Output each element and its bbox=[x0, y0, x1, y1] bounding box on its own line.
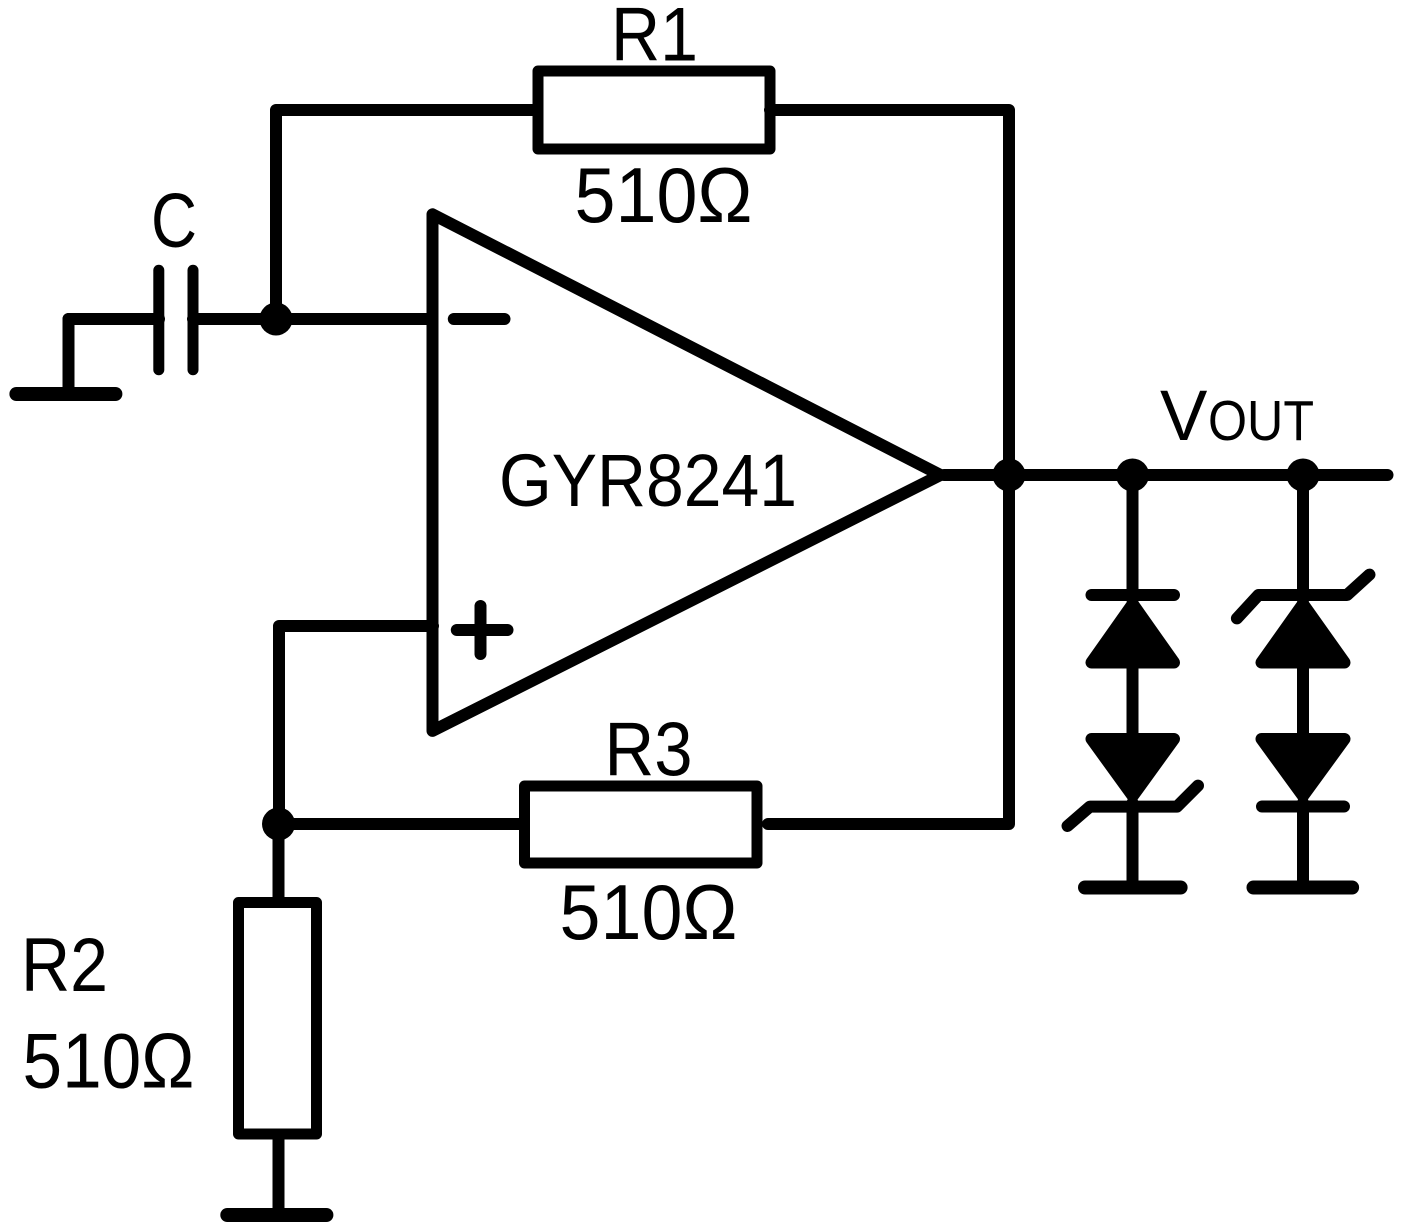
wire D3 to D4 bbox=[1297, 665, 1309, 740]
wire node A up to feedback bbox=[276, 110, 538, 319]
zener D3 bent bar bbox=[1237, 575, 1370, 619]
wire D2 to ground bbox=[1127, 803, 1139, 882]
ground (diode chain 1) bbox=[1085, 881, 1181, 895]
node A junction at inverting input bbox=[260, 303, 293, 336]
op-amp minus input symbol bbox=[454, 313, 505, 325]
wire R1 right to vertical feedback bbox=[770, 110, 1009, 475]
wire D4 to ground bbox=[1297, 803, 1309, 882]
op-amp plus input symbol bbox=[457, 606, 508, 654]
ground (diode chain 2) bbox=[1254, 881, 1353, 895]
output node bbox=[993, 459, 1026, 492]
ground (R2) bbox=[227, 1208, 326, 1222]
resistor R1 bbox=[538, 71, 770, 149]
diode D1 triangle bbox=[1092, 604, 1175, 663]
svg-text:510Ω: 510Ω bbox=[23, 1016, 195, 1104]
diode D4 triangle bbox=[1262, 739, 1345, 796]
wire op-amp plus input bbox=[279, 626, 433, 824]
svg-text:V: V bbox=[1160, 377, 1208, 456]
svg-text:OUT: OUT bbox=[1208, 389, 1314, 453]
wire D1 to D2 bbox=[1127, 665, 1139, 740]
zener D2 bent bar bbox=[1068, 786, 1199, 826]
capacitor C bbox=[159, 270, 193, 369]
node output to diode chain 1 bbox=[1116, 459, 1149, 492]
svg-text:R1: R1 bbox=[611, 0, 698, 77]
zener D2 triangle bbox=[1092, 739, 1175, 796]
node output to diode chain 2 bbox=[1287, 459, 1320, 492]
wire R2 to ground bbox=[273, 1140, 285, 1215]
zener D3 triangle bbox=[1262, 604, 1345, 663]
resistor R3 bbox=[525, 786, 758, 863]
wire to zener D3 bbox=[1297, 475, 1309, 600]
wire capacitor to op-amp inverting input bbox=[193, 313, 433, 325]
wire vertical output node down to R3 bbox=[768, 475, 1009, 824]
op-amp U1 bbox=[433, 214, 941, 731]
svg-text:510Ω: 510Ω bbox=[575, 151, 753, 239]
node B junction at plus input bbox=[262, 808, 295, 841]
diode D4 cathode bar bbox=[1262, 801, 1344, 813]
svg-text:510Ω: 510Ω bbox=[560, 868, 738, 956]
wire node B down to R2 bbox=[273, 824, 285, 897]
svg-text:R3: R3 bbox=[605, 708, 693, 793]
wire node B to R3 bbox=[279, 818, 521, 830]
wire output bbox=[944, 469, 1388, 481]
wire ground to capacitor bbox=[69, 313, 160, 325]
ground (input) bbox=[16, 319, 115, 394]
svg-text:R2: R2 bbox=[21, 923, 108, 1008]
svg-text:GYR8241: GYR8241 bbox=[499, 439, 797, 522]
label Vout bbox=[1160, 377, 1314, 456]
wire to diode D1 bbox=[1127, 475, 1139, 600]
resistor R2 bbox=[239, 903, 317, 1135]
svg-text:C: C bbox=[151, 178, 197, 264]
diode D1 cathode bar bbox=[1092, 589, 1175, 601]
